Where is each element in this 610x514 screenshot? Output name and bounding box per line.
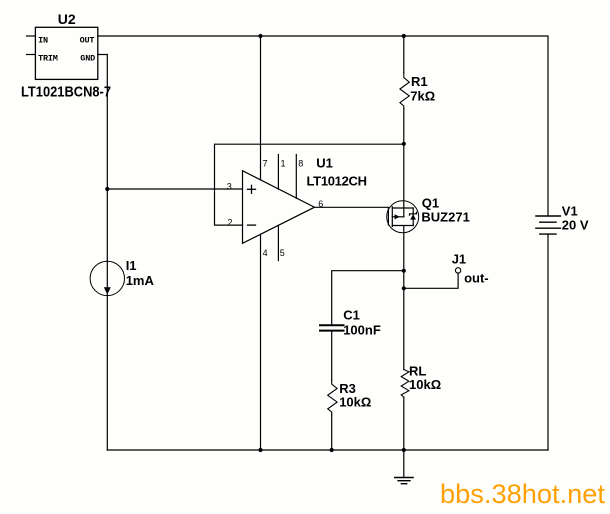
- MOSFET channel bar: [391, 207, 393, 227]
- svg-text:LT1021BCN8-7: LT1021BCN8-7: [21, 83, 111, 100]
- MOSFET gate bar: [387, 208, 389, 225]
- svg-text:10kΩ: 10kΩ: [409, 377, 441, 392]
- pin number 4: [263, 248, 268, 258]
- svg-text:BUZ271: BUZ271: [421, 209, 469, 224]
- svg-text:U2: U2: [58, 11, 76, 27]
- wire R1 to MOSFET drain: [403, 109, 405, 217]
- wire MOSFET source down to bottom rail: [403, 226, 405, 370]
- connector J1 open circle: [455, 268, 460, 273]
- op-amp plus sign: [248, 185, 256, 193]
- svg-text:5: 5: [280, 248, 285, 258]
- ground symbol: [395, 478, 413, 484]
- svg-text:2: 2: [228, 217, 233, 227]
- J1 net label out-: [464, 270, 489, 285]
- svg-text:8: 8: [298, 158, 303, 168]
- capacitor C1: [320, 325, 344, 330]
- wire RL to bottom rail: [403, 397, 405, 450]
- U2 pin stub TRIM: [27, 54, 36, 56]
- svg-text:4: 4: [263, 248, 268, 258]
- svg-text:GND: GND: [80, 54, 95, 64]
- Q1 reference label: [422, 196, 439, 211]
- svg-text:3: 3: [227, 182, 232, 192]
- junction dot pin7/top rail: [258, 34, 262, 38]
- U2 pin name TRIM: [38, 54, 58, 64]
- node A junction dot: [105, 187, 109, 191]
- svg-text:bbs.38hot.net: bbs.38hot.net: [440, 479, 605, 509]
- pin number 5: [280, 248, 285, 258]
- op-amp value label LT1012CH: [307, 173, 368, 188]
- resistor RL: [401, 370, 409, 398]
- battery V1 short plate 2: [540, 233, 556, 235]
- junction dot R1/top rail: [402, 34, 406, 38]
- svg-text:7: 7: [263, 158, 268, 168]
- pin number 7: [263, 158, 268, 168]
- pin number 2: [228, 217, 233, 227]
- junction dot feedback/drain: [402, 142, 406, 146]
- svg-text:R1: R1: [411, 74, 428, 89]
- svg-text:10kΩ: 10kΩ: [339, 395, 371, 410]
- battery V1 long plate 2: [536, 227, 561, 229]
- V1 reference label: [562, 204, 578, 219]
- junction dot J1 branch: [402, 286, 406, 290]
- watermark bbs.38hot.net: [440, 479, 605, 509]
- MOSFET drain stub: [392, 207, 413, 209]
- V1 value label 20 V: [562, 218, 589, 233]
- C1 value label 100nF: [343, 323, 381, 338]
- svg-text:1: 1: [281, 158, 286, 168]
- svg-text:V1: V1: [562, 204, 578, 219]
- wire V1 bottom to bottom rail: [547, 234, 549, 450]
- junction dot R3/bottom rail: [330, 448, 334, 452]
- svg-text:1mA: 1mA: [126, 273, 155, 288]
- wire drain column from top rail to R1: [403, 36, 405, 73]
- RL reference label: [409, 364, 426, 379]
- wire C1 to R3: [331, 332, 333, 380]
- op-amp minus sign: [248, 224, 256, 226]
- R1 reference label: [411, 74, 428, 89]
- svg-text:J1: J1: [452, 252, 466, 267]
- current source I1 arrow head: [104, 287, 111, 294]
- svg-text:TRIM: TRIM: [38, 54, 58, 64]
- svg-text:U1: U1: [316, 156, 333, 171]
- wire feedback from inverting input to drain node: [215, 144, 404, 225]
- pin number 6: [318, 199, 323, 209]
- svg-text:IN: IN: [38, 36, 48, 46]
- J1 reference label: [452, 252, 466, 267]
- wire R3 to bottom rail: [331, 414, 333, 450]
- U2 pin name IN: [38, 36, 48, 46]
- pin 8 stub: [295, 155, 297, 199]
- Q1 value label BUZ271: [421, 209, 469, 224]
- C1 reference label: [343, 308, 360, 323]
- junction dot C1 branch: [402, 269, 406, 273]
- pin number 1: [281, 158, 286, 168]
- wire top rail from U2 OUT to V1: [98, 36, 548, 216]
- svg-text:20 V: 20 V: [562, 218, 589, 233]
- svg-text:100nF: 100nF: [343, 323, 381, 338]
- wire op-amp output to gate: [315, 206, 389, 208]
- RL value label: [409, 377, 441, 392]
- op-amp U1 triangle: [243, 171, 315, 244]
- wire C1 branch: [332, 271, 404, 325]
- wire bottom rail: [107, 449, 548, 451]
- svg-text:7kΩ: 7kΩ: [410, 88, 435, 103]
- MOSFET body arrow head: [395, 214, 400, 219]
- pin number 3: [227, 182, 232, 192]
- svg-text:OUT: OUT: [80, 36, 95, 46]
- MOSFET body diode triangle: [410, 214, 416, 219]
- MOSFET Q1 circle: [387, 201, 419, 233]
- wire left rail through I1 to bottom rail: [106, 189, 108, 450]
- I1 reference label: [126, 258, 137, 273]
- battery V1 short plate 1: [540, 221, 556, 223]
- MOSFET body stub with arrow: [392, 216, 404, 218]
- wire J1 branch: [404, 273, 458, 288]
- resistor R1: [400, 73, 409, 109]
- op-amp reference label U1: [316, 156, 333, 171]
- svg-text:I1: I1: [126, 258, 137, 273]
- svg-text:out-: out-: [464, 270, 489, 285]
- R3 reference label: [339, 381, 356, 396]
- battery V1 long plate 1: [536, 215, 561, 217]
- U2 reference label: [58, 11, 76, 27]
- U2 pin name GND: [80, 54, 95, 64]
- junction dot ground/bottom rail: [402, 448, 406, 452]
- MOSFET body diode cathode bar: [410, 212, 417, 215]
- U2 pin name OUT: [80, 36, 95, 46]
- current source I1 circle: [90, 261, 124, 295]
- wire ground stub: [403, 450, 405, 478]
- MOSFET source stub: [392, 225, 413, 227]
- pin 5 stub: [277, 225, 279, 260]
- wire pin 4 to bottom rail: [260, 234, 262, 450]
- R3 value label: [339, 395, 371, 410]
- pin 1 stub: [277, 155, 279, 190]
- svg-text:LT1012CH: LT1012CH: [307, 173, 368, 188]
- I1 value label 1mA: [126, 273, 155, 288]
- voltage reference U2 box: [35, 27, 97, 79]
- R1 value label: [410, 88, 435, 103]
- svg-text:C1: C1: [343, 308, 360, 323]
- wire pin 7 to top rail: [260, 36, 262, 179]
- U2 value label LT1021BCN8-7: [21, 83, 111, 100]
- pin number 8: [298, 158, 303, 168]
- U2 pin stub IN: [27, 35, 36, 37]
- MOSFET right vertical: [412, 208, 414, 226]
- junction dot pin4/bottom rail: [258, 448, 262, 452]
- wire U2 GND down to node A: [98, 55, 108, 190]
- wire op-amp noninverting input: [107, 188, 242, 190]
- resistor R3: [328, 380, 337, 414]
